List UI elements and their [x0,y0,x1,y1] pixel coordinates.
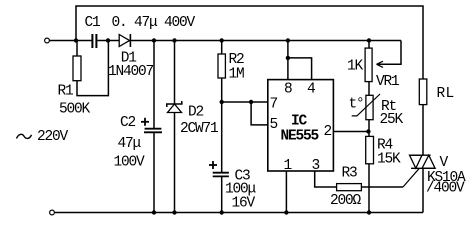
svg-text:IC: IC [291,114,308,130]
resistor R4 [366,136,374,163]
capacitor C1 [92,34,96,48]
resistor R3 [337,184,362,191]
svg-text:4: 4 [307,82,315,98]
wire D2 column [174,41,176,105]
svg-text:2CW71: 2CW71 [180,121,218,137]
svg-text:L: L [446,86,454,102]
wire Rt to node [368,120,370,132]
node dot VR1 top [367,38,371,42]
node dot R2 top [220,38,224,42]
wire top rail [76,6,423,79]
node dot C2 top [152,38,156,42]
wire R4 to ground [368,164,370,213]
wire R2 column [221,41,223,55]
terminal input bottom [50,210,55,215]
svg-text:100V: 100V [114,155,146,171]
triac gate lead [403,168,419,187]
op-amp U1 555 timer box [268,80,334,171]
zener diode D2 [167,101,182,113]
svg-text:/400V: /400V [426,181,465,197]
resistor R1 [73,56,81,81]
node dot pin1 ground [284,210,288,214]
svg-text:500K: 500K [59,102,91,118]
svg-text:5: 5 [270,117,278,133]
wire VR1 wiper bracket [377,41,401,65]
node dot D2 top [172,38,176,42]
svg-text:V: V [440,155,449,171]
node dot R2-C3-pin7 [220,100,224,104]
wire triac to ground rail [422,168,424,212]
node dot C2 bottom [152,210,156,214]
wire VR1 to Rt [368,82,370,96]
svg-text:VR1: VR1 [376,74,399,90]
wire 555 power pins 8 and 4 [287,41,289,80]
node dot pin5 branch [249,100,253,104]
node dot pin2 divider [366,129,370,133]
svg-text:C1: C1 [85,15,101,31]
svg-text:NE555: NE555 [281,129,319,145]
VR1 wiper arrow [377,61,384,67]
wire C2 column [153,41,155,129]
AC source label 220V [17,134,32,138]
svg-text:200Ω: 200Ω [330,193,362,209]
svg-text:47μ: 47μ [118,136,142,152]
svg-text:t°: t° [349,97,364,113]
wire C3 column [221,102,223,173]
wire node to pin7 [222,101,268,103]
svg-text:1K: 1K [347,59,364,75]
wire pin3 to R3 [315,171,337,187]
svg-text:R: R [437,86,446,102]
wire pin2 to divider node [333,131,368,133]
svg-text:0. 47μ 400V: 0. 47μ 400V [112,15,196,31]
svg-text:R3: R3 [342,166,358,182]
node dot R4 ground [367,210,371,214]
svg-text:1M: 1M [229,67,245,83]
node dot C1-D1 junction [106,38,110,42]
svg-text:16V: 16V [232,196,256,212]
wire R3 to gate [361,186,403,188]
diode D1 [119,34,130,47]
resistor R2 [218,54,225,78]
capacitor C2 [144,129,162,133]
node dot D2 bottom [172,210,176,214]
svg-text:1: 1 [284,158,292,174]
potentiometer VR1 [365,48,372,82]
wire RL to triac [422,105,424,156]
svg-text:7: 7 [270,97,278,113]
wire node to R4 [368,132,370,137]
wire bracket to pin5 [251,102,268,125]
svg-text:15K: 15K [377,152,401,168]
node dot 555 supply top [286,38,290,42]
wire bottom rail [55,212,424,214]
svg-text:C2: C2 [120,115,136,131]
svg-text:2: 2 [324,124,332,140]
node dot C3 bottom [220,210,224,214]
svg-text:8: 8 [284,82,292,98]
wire R1 loop [76,41,78,57]
svg-text:1N4007: 1N4007 [108,64,154,80]
thermistor Rt [366,95,373,119]
load resistor RL [419,79,427,105]
wire pin1 to ground [285,171,287,213]
node dot main rail / top rail [74,38,78,42]
capacitor C3 [213,173,229,177]
svg-text:220V: 220V [37,129,69,145]
terminal input top [45,38,50,43]
svg-text:R1: R1 [58,84,74,100]
svg-text:D2: D2 [188,105,204,121]
node dot pins 8-4 tie [286,56,290,60]
wire VR1 top [368,41,370,49]
wire main horizontal [50,40,92,42]
svg-text:25K: 25K [380,112,404,128]
svg-text:3: 3 [312,158,320,174]
triac V [410,155,436,168]
